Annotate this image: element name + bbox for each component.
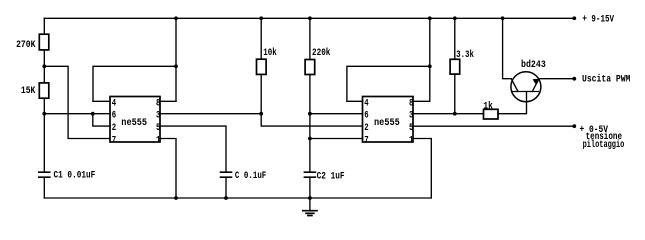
- junction dot rail/3.3k: [453, 16, 457, 20]
- junction dot pin3 U2/3.3k: [453, 112, 457, 116]
- resistor R6 3.3k top lead: [454, 18, 456, 59]
- wire C to bottom rail: [225, 178, 227, 198]
- wire 270K to 15K: [43, 50, 45, 83]
- junction dot 220k/pin6 U2: [308, 112, 312, 116]
- svg-text:+ 9-15V: + 9-15V: [582, 15, 614, 26]
- transistor Q1 emitter arrowhead: [533, 79, 540, 85]
- wire pin3 U1 output: [160, 113, 261, 115]
- wire collector Q1 to +V: [503, 18, 512, 78]
- svg-text:2: 2: [112, 122, 116, 134]
- wire pin8 stub U1: [160, 100, 176, 102]
- junction dot rail/10k: [259, 16, 263, 20]
- transistor Q1 emitter diagonal: [532, 79, 539, 92]
- wire Vcc drop to pin8 U2: [429, 18, 431, 101]
- resistor R4 220k top lead: [309, 18, 311, 59]
- op-amp U1 ne555 body: [110, 97, 160, 143]
- svg-text:ne555: ne555: [374, 117, 400, 129]
- svg-text:5: 5: [156, 122, 160, 134]
- svg-text:ne555: ne555: [121, 117, 147, 129]
- op-amp U2 ne555 body: [363, 97, 414, 143]
- terminal dot +9-15V: [572, 16, 576, 20]
- wire pin4 stub U1: [93, 100, 110, 102]
- junction dot pin3 U1/10k: [259, 112, 263, 116]
- junction dot rail/ground: [308, 196, 312, 200]
- svg-text:2: 2: [364, 122, 368, 134]
- junction dot 220k/pin7 U2: [308, 137, 312, 141]
- transistor Q1 bd243 circle: [511, 72, 541, 102]
- wire pin4 U2 to Vcc loop: [347, 66, 430, 101]
- wire node A branch to pin7 U1: [44, 66, 110, 138]
- junction dot rail/220k: [308, 16, 312, 20]
- svg-text:220k: 220k: [312, 47, 330, 59]
- wire pin4 U1 to Vcc loop: [93, 66, 176, 101]
- junction dot rail/pin1 U1: [174, 196, 178, 200]
- svg-text:7: 7: [364, 135, 368, 147]
- ground symbol: [309, 198, 311, 211]
- junction dot rail/collector: [501, 16, 505, 20]
- resistor R2 15K body: [39, 83, 49, 98]
- wire pin8 stub U2: [413, 100, 430, 102]
- svg-text:8: 8: [156, 97, 160, 109]
- wire 15K to C1: [43, 98, 45, 171]
- wire pin5 U2 to output: [413, 125, 574, 127]
- wire pin6 U2: [310, 113, 363, 115]
- svg-text:Uscita PWM: Uscita PWM: [582, 74, 630, 86]
- resistor R5 1k body: [484, 109, 499, 119]
- wire bottom ground rail: [44, 197, 431, 199]
- transistor Q1 base bar: [512, 91, 538, 93]
- wire top +V rail: [44, 17, 574, 19]
- wire pin4 stub U2: [347, 100, 363, 102]
- resistor R3 10k leads: [260, 18, 262, 113]
- resistor R1 270K body: [39, 34, 49, 50]
- svg-text:4: 4: [112, 97, 116, 109]
- resistor R4 220k body: [305, 60, 315, 75]
- junction dot U2 Vcc loop: [428, 64, 432, 68]
- wire pin1 U2 to ground rail: [413, 139, 431, 199]
- svg-text:4: 4: [364, 97, 368, 109]
- capacitor C 0.1uF plates: [221, 172, 232, 177]
- svg-text:10k: 10k: [263, 47, 277, 59]
- svg-text:pilotaggio: pilotaggio: [583, 139, 625, 151]
- svg-text:7: 7: [112, 135, 116, 147]
- transistor Q1 collector diagonal: [511, 79, 518, 92]
- svg-text:8: 8: [409, 97, 413, 109]
- wire pin5 U1 to C: [160, 126, 226, 171]
- wire pin3 U2 to 1k: [413, 113, 484, 115]
- wire emitter Q1 to Uscita PWM: [539, 78, 574, 80]
- terminal dot +0-5V: [572, 124, 576, 128]
- svg-text:C2 1uF: C2 1uF: [317, 171, 345, 182]
- svg-text:5: 5: [409, 122, 413, 134]
- wire pin7 U2: [310, 138, 363, 140]
- capacitor C1 plates: [39, 172, 50, 177]
- svg-text:1k: 1k: [483, 100, 492, 112]
- capacitor C2 plates: [304, 172, 315, 177]
- wire left branch top (rail to R 270K): [43, 18, 45, 34]
- resistor R6 3.3k body: [450, 59, 460, 74]
- wire 1k to base Q1: [498, 92, 527, 114]
- junction dot rail/U1 Vcc: [174, 16, 178, 20]
- wire Vcc drop to pin8 U1: [175, 18, 177, 101]
- svg-text:C1 0.01uF: C1 0.01uF: [54, 171, 96, 182]
- svg-text:3: 3: [409, 110, 413, 122]
- junction dot 15K/C1/pin6: [42, 112, 46, 116]
- wire C1 to bottom rail: [43, 178, 45, 198]
- svg-text:3: 3: [156, 110, 160, 122]
- svg-text:6: 6: [364, 110, 368, 122]
- wire pin6-pin2 tie jog U1: [93, 114, 110, 126]
- svg-text:15K: 15K: [21, 86, 36, 97]
- resistor R6 3.3k bottom lead: [454, 74, 456, 114]
- svg-text:3.3k: 3.3k: [456, 49, 474, 61]
- junction dot pin6/pin2 tie U1: [91, 112, 95, 116]
- junction dot 270K/15K node: [42, 64, 46, 68]
- wire pin3 U1 to pin2 U2: [261, 114, 362, 126]
- wire C2 to bottom rail: [309, 178, 311, 198]
- junction dot U1 Vcc loop: [174, 64, 178, 68]
- svg-text:bd243: bd243: [521, 59, 546, 71]
- wire threshold line to pin6 U1: [44, 113, 110, 115]
- terminal dot Uscita PWM: [572, 77, 576, 81]
- resistor R4 220k bottom lead to C2: [309, 75, 311, 172]
- resistor R3 10k body: [257, 59, 267, 74]
- junction dot rail/U2 Vcc: [428, 16, 432, 20]
- svg-text:270K: 270K: [16, 40, 35, 51]
- svg-text:1: 1: [156, 135, 160, 147]
- svg-text:1: 1: [409, 135, 413, 147]
- junction dot rail/C: [224, 196, 228, 200]
- wire pin1 U1 to ground rail: [160, 139, 176, 199]
- svg-text:C 0.1uF: C 0.1uF: [235, 171, 266, 182]
- svg-text:6: 6: [112, 110, 116, 122]
